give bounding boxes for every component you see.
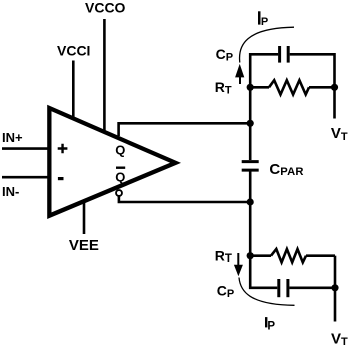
svg-text:VEE: VEE [69, 237, 99, 254]
svg-text:VCCO: VCCO [85, 0, 126, 15]
svg-text:Q: Q [115, 142, 125, 157]
svg-text:IN+: IN+ [2, 130, 23, 145]
svg-text:IN-: IN- [2, 184, 19, 199]
svg-text:Q: Q [115, 169, 125, 184]
svg-text:P: P [267, 320, 275, 332]
svg-text:P: P [261, 16, 268, 28]
svg-text:VCCI: VCCI [57, 42, 90, 58]
